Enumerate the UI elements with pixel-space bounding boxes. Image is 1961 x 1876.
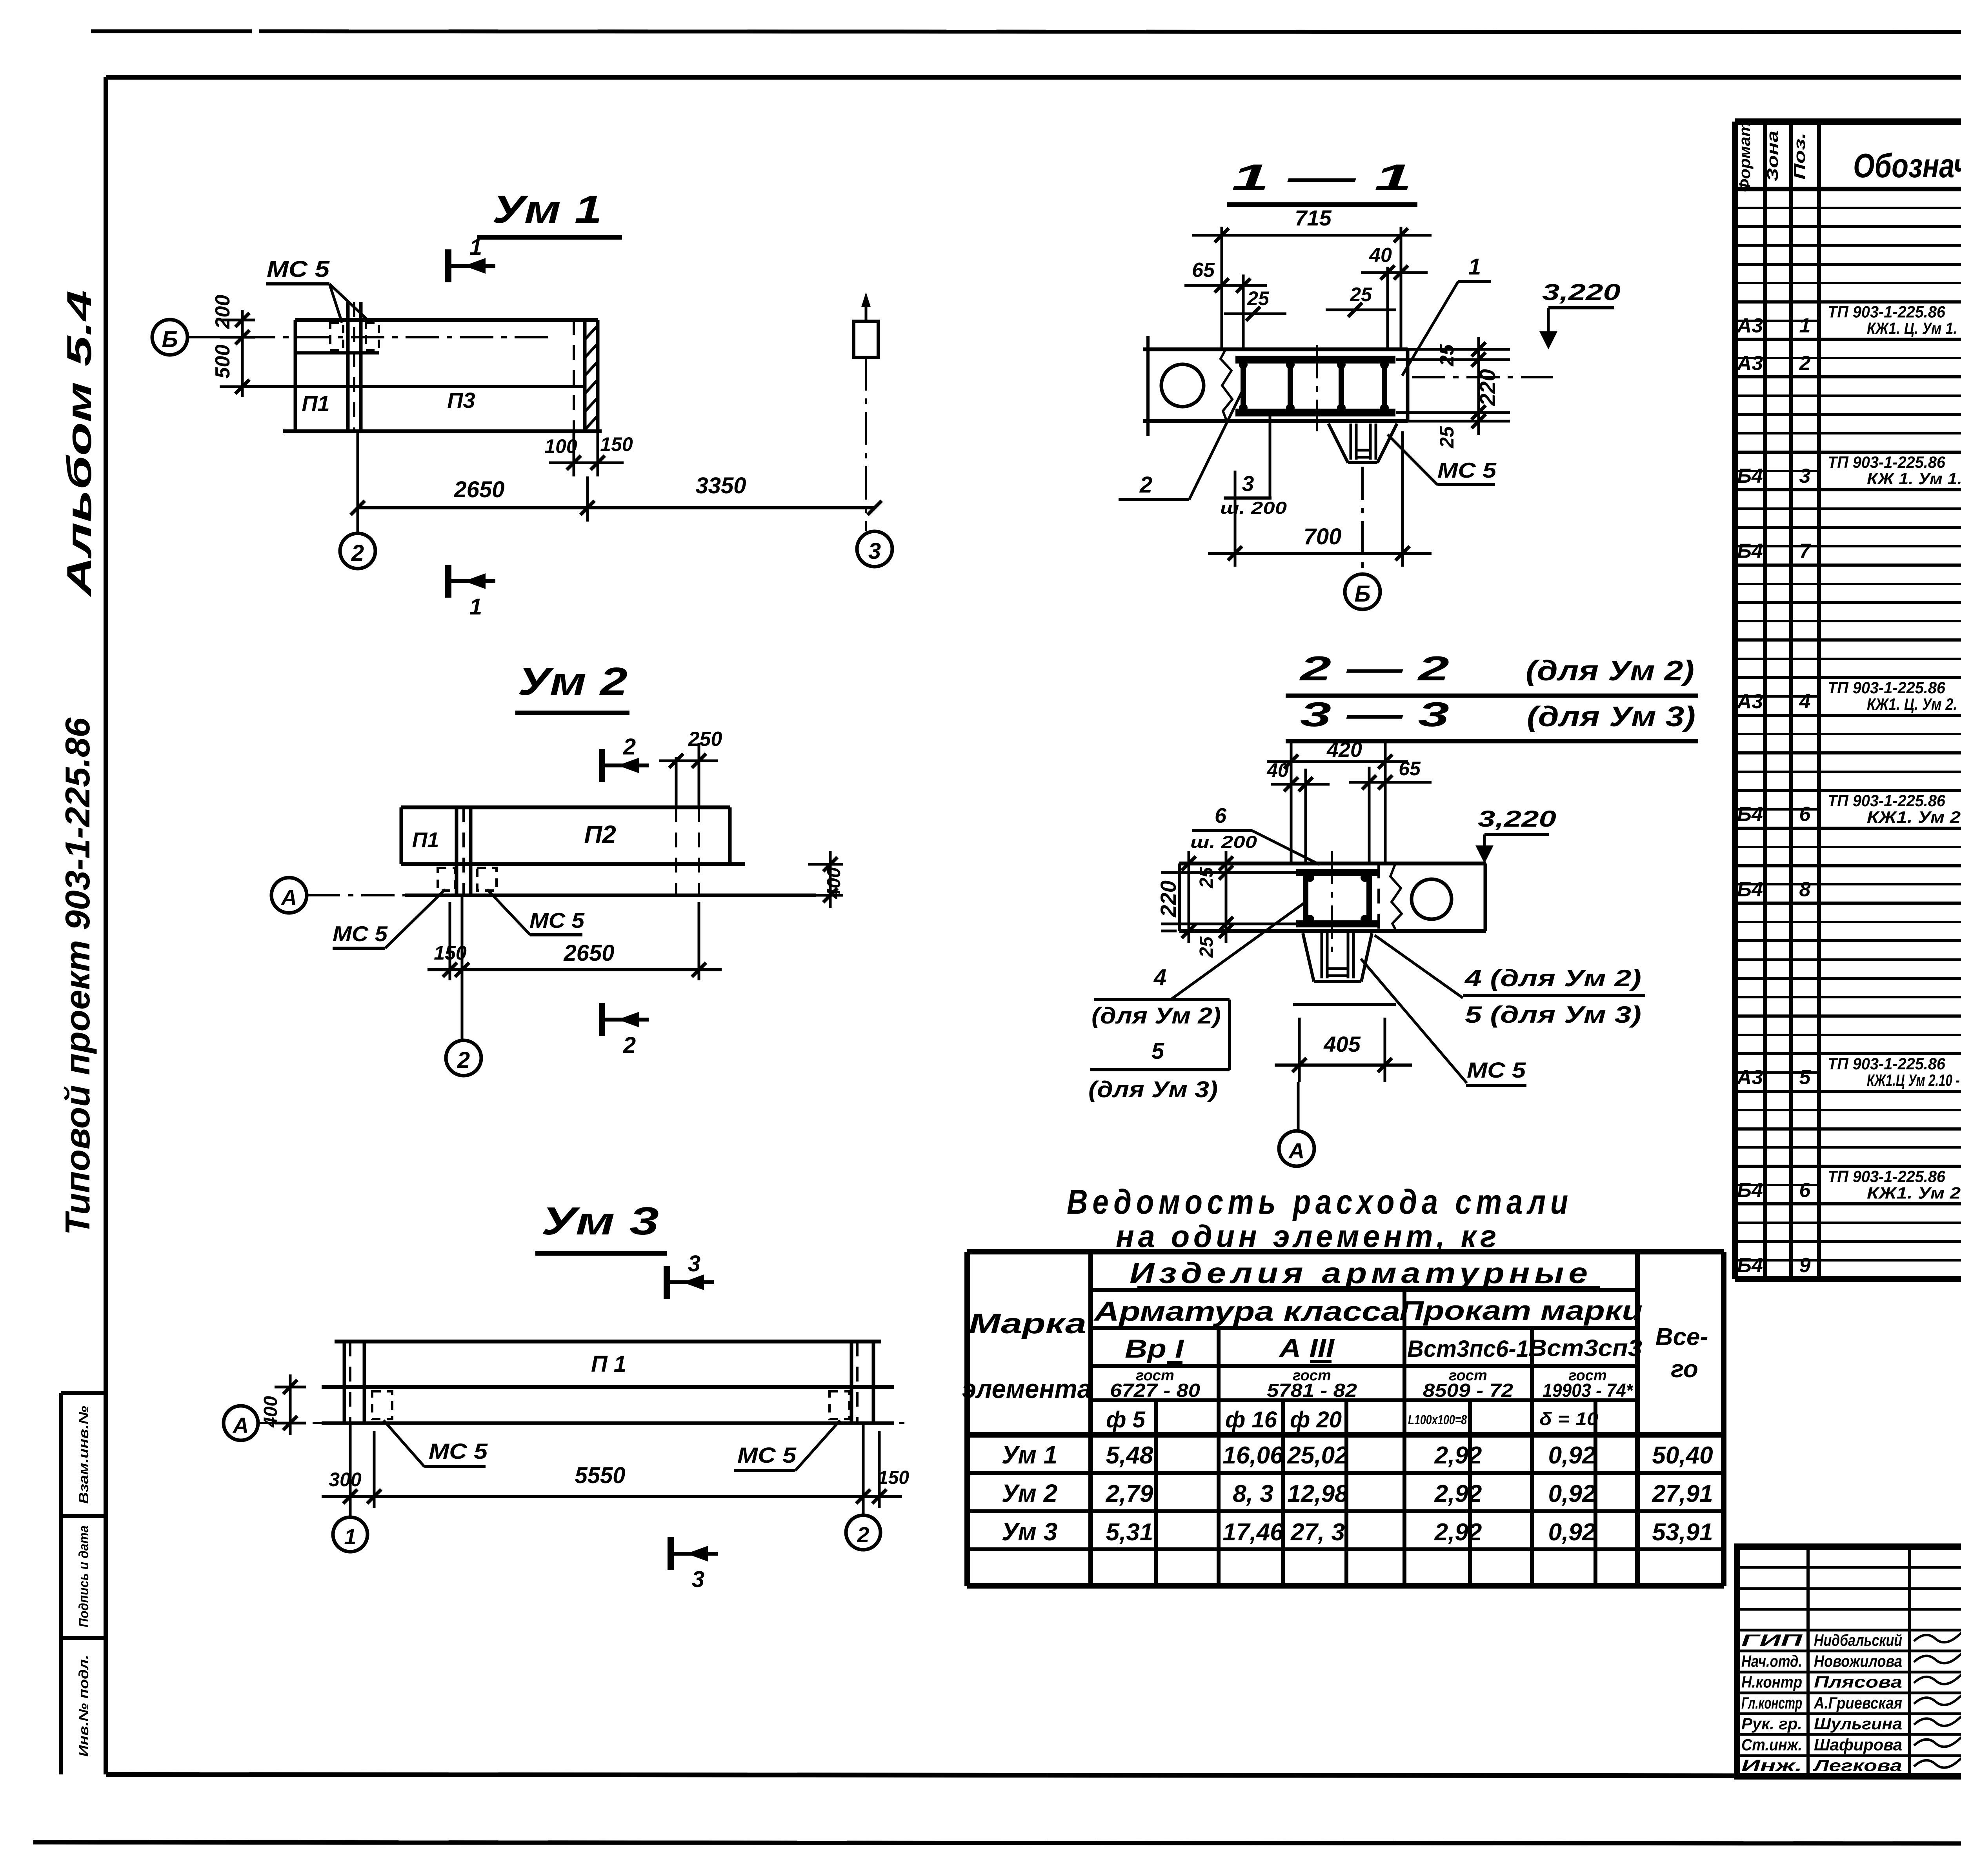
svg-text:МС 5: МС 5: [1467, 1058, 1526, 1082]
svg-text:2650: 2650: [453, 477, 504, 502]
svg-text:2: 2: [857, 1522, 869, 1547]
Um3 joint lines left: [343, 1342, 346, 1423]
svg-text:5: 5: [1799, 1066, 1811, 1089]
Um2 dim 250: [675, 757, 678, 807]
Um3 slab outline: [335, 1340, 881, 1343]
svg-text:25: 25: [1196, 867, 1217, 889]
svg-text:МС 5: МС 5: [333, 922, 388, 946]
svg-text:Взам.инв.№: Взам.инв.№: [76, 1406, 91, 1504]
svg-text:6: 6: [1215, 804, 1227, 827]
sec2 dim 405: [1298, 1018, 1301, 1082]
Um1 section mark 1 top: [448, 234, 495, 282]
svg-text:А3: А3: [1736, 314, 1763, 337]
staff table: [1806, 1547, 1810, 1776]
svg-text:Обозначение: Обозначение: [1853, 147, 1961, 185]
svg-text:Легкова: Легкова: [1812, 1756, 1902, 1775]
title block frame: [1737, 1547, 1961, 1776]
svg-text:17,46: 17,46: [1222, 1519, 1284, 1546]
svg-text:400: 400: [824, 867, 844, 899]
svg-text:4 (для Ум 2): 4 (для Ум 2): [1464, 965, 1641, 991]
svg-text:5,48: 5,48: [1106, 1442, 1153, 1469]
sec1-1 dim 715: [1221, 227, 1223, 349]
svg-text:715: 715: [1295, 205, 1332, 230]
svg-text:Вр I: Вр I: [1125, 1334, 1184, 1363]
svg-text:Б: Б: [1354, 581, 1370, 607]
svg-text:3: 3: [868, 538, 881, 564]
svg-text:2: 2: [1799, 352, 1811, 374]
svg-text:3: 3: [1242, 471, 1254, 496]
svg-text:0,92: 0,92: [1548, 1519, 1596, 1546]
svg-text:2 — 2: 2 — 2: [1299, 649, 1449, 688]
svg-text:6727 - 80: 6727 - 80: [1110, 1380, 1200, 1401]
sheet top edge line: [91, 29, 252, 33]
svg-text:1: 1: [469, 234, 482, 260]
svg-text:8509 - 72: 8509 - 72: [1423, 1380, 1513, 1401]
svg-text:L100x100=8: L100x100=8: [1408, 1412, 1467, 1427]
svg-text:2: 2: [351, 540, 364, 566]
svg-text:(для Ум 2): (для Ум 2): [1526, 655, 1694, 687]
svg-text:Новожилова: Новожилова: [1814, 1652, 1902, 1670]
sec1-1 hollow core circle: [1161, 364, 1204, 407]
svg-text:ТП 903-1-225.86: ТП 903-1-225.86: [1828, 453, 1946, 471]
svg-text:1: 1: [344, 1524, 356, 1549]
svg-text:Подпись и дата: Подпись и дата: [76, 1525, 91, 1627]
svg-text:Вст3сп3: Вст3сп3: [1528, 1335, 1642, 1361]
svg-text:ТП 903-1-225.86: ТП 903-1-225.86: [1828, 303, 1946, 321]
svg-text:3: 3: [688, 1251, 700, 1276]
svg-text:6: 6: [1799, 803, 1811, 826]
svg-text:2,79: 2,79: [1106, 1480, 1153, 1507]
sec2 dim 40: [1304, 769, 1307, 863]
svg-text:Гл.констр: Гл.констр: [1741, 1694, 1802, 1712]
spec table half-row lines: [1735, 207, 1819, 209]
svg-text:25: 25: [1436, 344, 1458, 367]
svg-text:8: 8: [1799, 878, 1811, 901]
svg-text:А3: А3: [1736, 352, 1763, 374]
svg-text:Нач.отд.: Нач.отд.: [1741, 1652, 1802, 1670]
svg-text:Плясова: Плясова: [1814, 1673, 1902, 1691]
Um1 section mark 1 bottom: [448, 565, 495, 620]
svg-text:9: 9: [1799, 1254, 1811, 1277]
svg-text:Б4: Б4: [1737, 803, 1763, 826]
sec1-1 break line: [1221, 349, 1232, 421]
svg-text:ТП 903-1-225.86: ТП 903-1-225.86: [1828, 678, 1946, 697]
svg-text:0,92: 0,92: [1548, 1480, 1596, 1507]
sec2 slab band: [1179, 862, 1486, 865]
svg-text:(для Ум 3): (для Ум 3): [1088, 1077, 1218, 1102]
spec table: [1735, 118, 1961, 125]
svg-text:Ум 1: Ум 1: [1002, 1441, 1057, 1469]
svg-text:2: 2: [623, 1033, 636, 1058]
svg-text:МС 5: МС 5: [737, 1443, 797, 1467]
Um2 slab outline: [401, 805, 730, 809]
svg-text:МС 5: МС 5: [267, 256, 330, 282]
svg-text:1 — 1: 1 — 1: [1232, 157, 1412, 198]
svg-text:ш. 200: ш. 200: [1220, 498, 1287, 518]
sec1-1 slab band: [1143, 347, 1408, 351]
svg-text:на один элемент, кг: на один элемент, кг: [1116, 1219, 1500, 1254]
sec2 break line: [1390, 863, 1402, 931]
svg-text:0,92: 0,92: [1548, 1442, 1596, 1469]
svg-text:2,92: 2,92: [1434, 1442, 1482, 1469]
Um1 dim 200/500: [241, 310, 244, 397]
svg-text:25,02: 25,02: [1287, 1442, 1348, 1469]
svg-text:ш. 200: ш. 200: [1190, 833, 1257, 852]
svg-text:2650: 2650: [563, 940, 614, 966]
svg-text:ф 5: ф 5: [1106, 1407, 1145, 1432]
svg-text:(для Ум 2): (для Ум 2): [1091, 1003, 1221, 1029]
Um1 axis B line: [187, 336, 556, 338]
sec1-1 dim 700: [1234, 471, 1237, 567]
svg-text:150: 150: [878, 1467, 909, 1488]
svg-text:МС 5: МС 5: [429, 1439, 488, 1463]
sec2 left dim chain: [1173, 863, 1302, 864]
svg-text:П 1: П 1: [591, 1351, 626, 1377]
Um3 section mark 3 bottom: [671, 1537, 718, 1592]
svg-text:КЖ1.Ц Ум 2.10 - 01: КЖ1.Ц Ум 2.10 - 01: [1867, 1071, 1961, 1089]
svg-text:ТП 903-1-225.86: ТП 903-1-225.86: [1828, 1054, 1946, 1073]
Um2 dim 150 2650: [449, 902, 451, 980]
Um1 dim 2650 3350: [357, 431, 359, 533]
svg-text:53,91: 53,91: [1652, 1519, 1713, 1546]
svg-text:100: 100: [544, 435, 577, 457]
svg-text:Ум 3: Ум 3: [1002, 1518, 1057, 1546]
svg-text:250: 250: [688, 728, 722, 751]
svg-text:4: 4: [1799, 690, 1811, 713]
svg-text:Б4: Б4: [1737, 878, 1763, 901]
Um2 dashed pair right: [675, 807, 677, 895]
svg-text:16,06: 16,06: [1222, 1442, 1284, 1469]
svg-text:8, 3: 8, 3: [1233, 1480, 1273, 1507]
svg-text:ГИП: ГИП: [1741, 1631, 1803, 1649]
svg-text:Альбом 5.4: Альбом 5.4: [60, 290, 98, 597]
svg-text:П2: П2: [584, 820, 616, 849]
svg-text:Рук. гр.: Рук. гр.: [1741, 1714, 1802, 1733]
svg-text:П1: П1: [302, 391, 329, 416]
svg-text:Шульгина: Шульгина: [1814, 1714, 1902, 1733]
svg-text:Б4: Б4: [1737, 1254, 1763, 1277]
Um1 MC5 squares: [330, 323, 343, 350]
svg-text:Все-: Все-: [1655, 1323, 1708, 1351]
sec2 axis circle A: [1297, 1082, 1300, 1131]
svg-text:го: го: [1671, 1356, 1698, 1383]
Um2 axis circle 2: [461, 895, 464, 1040]
sec1-1 right slab end: [1406, 349, 1410, 421]
svg-text:А: А: [1288, 1138, 1304, 1163]
sec1-1 dim 25 mid: [1326, 309, 1396, 311]
svg-text:МС 5: МС 5: [529, 908, 585, 933]
sec1-1 right dim chain 25/220/25: [1396, 348, 1510, 351]
svg-text:6: 6: [1799, 1179, 1811, 1202]
svg-text:А3: А3: [1736, 1066, 1763, 1089]
Um2 axis A: [307, 894, 816, 896]
Um1 right end hatched band: [573, 320, 575, 431]
sec2 dim 65: [1368, 767, 1371, 863]
svg-text:Марка: Марка: [969, 1308, 1086, 1340]
Um2 section mark 2 bottom: [602, 1003, 649, 1058]
svg-text:420: 420: [1326, 738, 1362, 762]
svg-text:ТП 903-1-225.86: ТП 903-1-225.86: [1828, 791, 1946, 810]
svg-text:65: 65: [1192, 259, 1215, 282]
svg-text:Инв.№ подл.: Инв.№ подл.: [76, 1655, 91, 1757]
svg-text:А: А: [232, 1413, 249, 1438]
sec1-1 dim 65: [1242, 274, 1245, 349]
svg-text:КЖ 1. Ум 1. 1: КЖ 1. Ум 1. 1: [1867, 469, 1961, 488]
svg-text:500: 500: [211, 345, 234, 379]
sec2 MC5 channel: [1303, 933, 1314, 982]
Um3 axis circle 2: [846, 1515, 880, 1550]
Um1 slab outline: [295, 318, 598, 322]
svg-text:ф 16: ф 16: [1225, 1407, 1277, 1432]
svg-text:700: 700: [1304, 524, 1342, 549]
svg-text:П3: П3: [447, 388, 475, 413]
svg-text:Нидбальский: Нидбальский: [1814, 1631, 1902, 1649]
svg-text:δ = 10: δ = 10: [1539, 1409, 1598, 1429]
svg-text:5: 5: [1151, 1038, 1164, 1064]
Um2 dim 400: [808, 863, 843, 866]
sec2 leaders: [1171, 902, 1306, 1000]
sec2 hollow core circle: [1412, 879, 1452, 919]
drawing frame: [106, 75, 1961, 80]
svg-text:27, 3: 27, 3: [1290, 1519, 1345, 1546]
svg-text:25: 25: [1247, 287, 1270, 309]
svg-text:Шафирова: Шафирова: [1814, 1735, 1902, 1754]
svg-text:(для Ум 3): (для Ум 3): [1527, 701, 1695, 733]
svg-text:2: 2: [623, 734, 636, 760]
sheet bottom edge line: [33, 1842, 1961, 1844]
svg-text:65: 65: [1399, 758, 1421, 780]
svg-text:3,220: 3,220: [1478, 806, 1556, 832]
svg-text:5 (для Ум 3): 5 (для Ум 3): [1465, 1002, 1641, 1028]
svg-text:элемента: элемента: [962, 1374, 1091, 1404]
svg-text:КЖ1. Ц. Ум 1. 10: КЖ1. Ц. Ум 1. 10: [1867, 319, 1961, 338]
sec1-1 cage centerline: [1316, 345, 1318, 431]
svg-text:Ведомость расхода стали: Ведомость расхода стали: [1067, 1182, 1573, 1221]
svg-text:400: 400: [260, 1396, 281, 1428]
sec2 pit bottom line: [1293, 1003, 1396, 1006]
svg-text:50,40: 50,40: [1652, 1442, 1713, 1469]
Um1 axis B circle: [152, 320, 187, 355]
svg-text:2,92: 2,92: [1434, 1480, 1482, 1507]
Um3 joint lines right: [850, 1342, 853, 1423]
svg-text:3: 3: [692, 1567, 704, 1592]
Um2 section mark 2 top: [602, 734, 649, 782]
svg-text:КЖ1. Ум 2.1: КЖ1. Ум 2.1: [1867, 1183, 1961, 1202]
svg-text:А.Гриевская: А.Гриевская: [1814, 1694, 1902, 1712]
svg-text:КЖ1. Ум 2.1: КЖ1. Ум 2.1: [1867, 808, 1961, 826]
Um2 MC5 squares: [438, 868, 455, 891]
svg-text:Ум 1: Ум 1: [492, 187, 602, 231]
svg-text:КЖ1. Ц. Ум 2. 10: КЖ1. Ц. Ум 2. 10: [1867, 695, 1961, 713]
svg-text:1: 1: [1468, 254, 1481, 280]
svg-text:200: 200: [211, 295, 234, 329]
svg-text:5550: 5550: [575, 1463, 625, 1488]
svg-text:27,91: 27,91: [1652, 1480, 1713, 1507]
sec1-1 MC5 channel: [1322, 420, 1397, 423]
svg-text:5,31: 5,31: [1106, 1519, 1153, 1546]
svg-text:300: 300: [329, 1469, 362, 1491]
steel table grid: [967, 1249, 1724, 1254]
sec2 dim 420: [1290, 741, 1293, 863]
svg-text:ТП 903-1-225.86: ТП 903-1-225.86: [1828, 1167, 1946, 1185]
svg-text:А3: А3: [1736, 690, 1763, 713]
svg-text:Ум 3: Ум 3: [541, 1199, 659, 1243]
svg-text:1: 1: [1799, 314, 1811, 337]
svg-text:7: 7: [1799, 540, 1812, 563]
svg-text:Типовой проект 903-1-225.86: Типовой проект 903-1-225.86: [58, 717, 97, 1235]
svg-text:Ум 2: Ум 2: [518, 660, 628, 703]
svg-text:Поз.: Поз.: [1791, 133, 1808, 180]
svg-text:МС 5: МС 5: [1437, 458, 1497, 482]
Um3 dim 400: [275, 1386, 306, 1389]
svg-text:25: 25: [1436, 426, 1458, 449]
svg-text:1: 1: [469, 594, 482, 620]
svg-text:Арматура класса: Арматура класса: [1093, 1296, 1400, 1327]
svg-text:Н.контр: Н.контр: [1741, 1673, 1802, 1691]
svg-text:2,92: 2,92: [1434, 1519, 1482, 1546]
Um1 axis circle 2: [340, 533, 375, 569]
svg-text:Инж.: Инж.: [1741, 1756, 1802, 1775]
Um3 MC5 squares: [372, 1391, 392, 1419]
Um1 column symbol at axis 3: [854, 321, 878, 357]
sec1-1 dim 25 left: [1224, 313, 1286, 315]
Um1 axis circle 3: [857, 531, 892, 567]
svg-text:2: 2: [1139, 472, 1152, 498]
sec1-1 dim 40: [1386, 267, 1389, 349]
svg-text:5781 - 82: 5781 - 82: [1267, 1380, 1357, 1401]
svg-text:405: 405: [1323, 1032, 1361, 1056]
sec1-1 rebar cage: [1235, 356, 1395, 364]
svg-text:220: 220: [1475, 369, 1500, 406]
Um3 axis circle 1: [333, 1517, 367, 1552]
svg-text:150: 150: [600, 433, 633, 455]
sec2 rebar cage: [1296, 869, 1379, 876]
svg-text:3,220: 3,220: [1542, 280, 1621, 305]
svg-text:220: 220: [1156, 880, 1181, 917]
svg-text:Изделия арматурные: Изделия арматурные: [1130, 1257, 1592, 1289]
svg-text:ф 20: ф 20: [1290, 1407, 1342, 1432]
svg-text:Зона: Зона: [1764, 131, 1781, 182]
svg-text:40: 40: [1369, 244, 1392, 267]
svg-text:3 — 3: 3 — 3: [1300, 695, 1449, 734]
Um3 dim 300 5550 150: [349, 1423, 352, 1517]
svg-text:Б: Б: [162, 327, 178, 352]
svg-text:12,98: 12,98: [1287, 1480, 1348, 1507]
svg-text:2: 2: [457, 1047, 470, 1073]
svg-text:Формат: Формат: [1736, 122, 1754, 192]
svg-text:3350: 3350: [695, 473, 746, 498]
svg-text:П1: П1: [412, 828, 439, 852]
svg-text:А: А: [280, 885, 297, 910]
Um3 axis A: [258, 1422, 910, 1424]
svg-text:Прокат марки: Прокат марки: [1399, 1295, 1643, 1326]
svg-text:Ум 2: Ум 2: [1002, 1479, 1057, 1507]
svg-text:25: 25: [1350, 284, 1372, 305]
margin stamp boxes: [61, 1391, 106, 1395]
svg-text:3: 3: [1799, 465, 1811, 487]
Um2 joint lines: [455, 807, 458, 895]
svg-text:19903 - 74*: 19903 - 74*: [1543, 1380, 1634, 1401]
svg-text:25: 25: [1196, 936, 1217, 958]
svg-text:4: 4: [1153, 965, 1166, 990]
sec1-1 axis circle B: [1361, 467, 1364, 573]
svg-text:Б4: Б4: [1737, 465, 1763, 487]
svg-text:Вст3пс6-1: Вст3пс6-1: [1407, 1336, 1529, 1362]
sec2 cage centerline: [1331, 851, 1333, 953]
Um1 joint lines: [346, 302, 350, 431]
Um1 dim 100 150: [573, 431, 575, 476]
svg-text:Б4: Б4: [1737, 540, 1763, 563]
svg-text:Б4: Б4: [1737, 1179, 1763, 1202]
svg-text:40: 40: [1266, 759, 1289, 781]
Um3 section mark 3 top: [667, 1251, 714, 1299]
svg-text:А III: А III: [1279, 1333, 1335, 1362]
svg-text:Ст.инж.: Ст.инж.: [1741, 1735, 1802, 1754]
